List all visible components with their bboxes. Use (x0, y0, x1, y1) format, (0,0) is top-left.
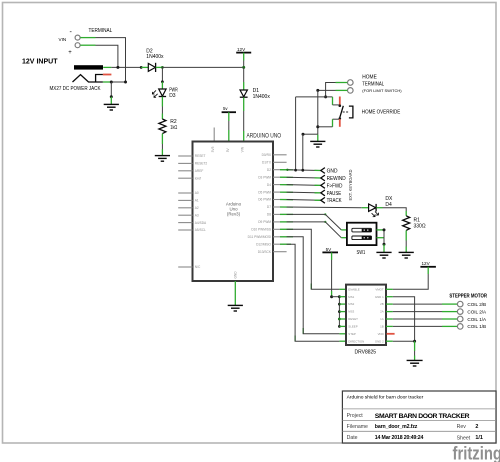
wire D10 to DRV ENABLE (287, 229, 340, 289)
svg-text:GND 2: GND 2 (375, 339, 384, 343)
SW1 slot 1 (352, 228, 372, 232)
power jack spring stub (103, 81, 111, 83)
diode D2 anode dot (140, 66, 143, 69)
svg-text:Arduino shield for barn door t: Arduino shield for barn door tracker (347, 395, 424, 401)
svg-text:Project: Project (347, 413, 364, 419)
wire D3 to REWIND (287, 176, 321, 179)
wire keyboard gnd riser join (303, 133, 318, 135)
svg-text:VMOT: VMOT (375, 287, 384, 291)
DRV left pin labels (348, 287, 364, 343)
wire D7 to LED D4 (287, 206, 362, 209)
svg-text:ARDUINO UNO: ARDUINO UNO (247, 132, 282, 139)
wire GND1 to ground (393, 297, 415, 342)
LED D3 light arrows (152, 90, 157, 97)
junction dot above ground (110, 95, 113, 98)
svg-text:D5 PWM: D5 PWM (258, 190, 271, 194)
svg-text:D1/TX: D1/TX (262, 161, 272, 165)
SW1 slot 2 (352, 236, 372, 240)
wire D4 to F-FWD (287, 184, 321, 187)
power jack J2 barrel bar (74, 65, 103, 69)
svg-text:RESET2: RESET2 (195, 162, 208, 166)
svg-text:COIL 1/B: COIL 1/B (467, 324, 486, 329)
svg-text:D13/SCK: D13/SCK (258, 250, 272, 254)
svg-text:D7: D7 (267, 205, 271, 209)
wire D5 to PAUSE (287, 191, 321, 194)
arduino right pin labels (248, 153, 272, 254)
svg-text:D3: D3 (169, 93, 176, 99)
svg-text:12V: 12V (237, 47, 246, 52)
wire 5v to arduino (228, 121, 230, 130)
wire terminal pin2 to ground line (318, 89, 336, 91)
svg-text:A4/SDA: A4/SDA (195, 221, 207, 225)
keyboard connector arrows (321, 168, 325, 204)
junction dot 5V node (330, 295, 333, 298)
ground symbol home (310, 141, 325, 147)
svg-text:COIL 2/A: COIL 2/A (467, 309, 487, 314)
switch S1 actuator dashes (343, 111, 350, 113)
wire terminal pin2 to 12V node (96, 45, 118, 67)
wire GND2 join (393, 340, 415, 342)
bendpoint dots D8/D9 wires (324, 213, 326, 215)
wire 12V to VMOT (393, 274, 428, 289)
SW1 right stubs (377, 229, 385, 231)
ground symbol R2 (155, 156, 170, 162)
svg-text:TRACK: TRACK (327, 198, 343, 204)
diode D2 triangle (148, 63, 155, 71)
LED D3 cathode bar (159, 96, 166, 98)
resistor R2 zigzag (159, 119, 166, 134)
svg-text:(Rev3): (Rev3) (227, 212, 241, 217)
svg-text:A0: A0 (195, 191, 199, 195)
switch S1 bottom contact red (339, 119, 341, 127)
wire switch-top net horizontal (296, 96, 333, 98)
arduino left pin labels (195, 154, 208, 269)
svg-text:D4: D4 (385, 202, 392, 208)
arduino right pin green ends D2-D12 (280, 170, 311, 342)
arduino 5V pin green end (228, 130, 230, 142)
wire spring node to terminal-minus drop (111, 81, 125, 83)
resistor R2 bottom stub (161, 134, 163, 144)
power 5v bar (222, 111, 236, 113)
home terminal pin2 stub (336, 89, 348, 91)
svg-text:GND: GND (233, 271, 237, 279)
wire terminal pin1 to node (326, 83, 336, 97)
LED D3 triangle (159, 89, 166, 96)
power 5V stub (331, 252, 333, 260)
svg-text:HOME OVERRIDE: HOME OVERRIDE (362, 110, 401, 116)
LED D4 light arrows (372, 212, 379, 217)
wire D2 to keyboard GND (287, 169, 321, 172)
wire rail branch down to LED D3 (161, 67, 163, 81)
DRV right pin stubs (386, 289, 393, 341)
power jack spring contact (73, 75, 103, 82)
wire D11 to DRV STEP (287, 237, 340, 334)
svg-text:VDD: VDD (378, 332, 384, 336)
junction dot (324, 95, 327, 98)
svg-text:1N400x: 1N400x (146, 54, 164, 60)
wire 2A to coil (393, 311, 442, 313)
svg-text:D11 PWM/MOSI: D11 PWM/MOSI (248, 235, 271, 239)
svg-text:D12/MISO: D12/MISO (256, 242, 271, 246)
svg-text:A2: A2 (195, 206, 199, 210)
switch S1 top contact red (339, 97, 341, 106)
junction dot spring node (110, 81, 113, 84)
wire 1A to coil (393, 318, 442, 320)
svg-text:SMART BARN DOOR TRACKER: SMART BARN DOOR TRACKER (375, 413, 470, 420)
junction dot 12V node (242, 66, 245, 69)
svg-text:A5/SCL: A5/SCL (195, 228, 206, 232)
wire terminal pin1 to jack spring (96, 38, 126, 82)
junction dot LED top (161, 80, 164, 83)
svg-text:Rev: Rev (457, 424, 467, 430)
LED D4 cathode bar (375, 204, 377, 212)
svg-text:Date: Date (347, 435, 358, 441)
svg-text:SLEEP: SLEEP (348, 325, 357, 329)
junction dot D2 out (161, 66, 164, 69)
svg-text:MS1: MS1 (348, 295, 354, 299)
wire MS1 row from 5V node (332, 296, 340, 298)
ground stub home (317, 135, 319, 141)
svg-text:D3 PWM: D3 PWM (258, 175, 271, 179)
wire 12V bar to node (243, 61, 245, 68)
op module U1 arduino uno box (193, 142, 274, 282)
svg-text:2: 2 (475, 424, 478, 430)
switch S1 top contact dot (339, 104, 342, 107)
svg-text:COIL 2/B: COIL 2/B (467, 302, 486, 307)
svg-text:RESET: RESET (348, 317, 358, 321)
keyboard pin labels (327, 169, 346, 205)
LED D4 triangle (369, 204, 376, 211)
svg-text:GND 1: GND 1 (375, 295, 384, 299)
switch S1 bottom feed (333, 118, 339, 120)
wire R2 to ground (161, 144, 163, 149)
terminal J1 pin2 stub (80, 44, 95, 46)
svg-text:D10 PWM/SS: D10 PWM/SS (251, 228, 271, 232)
SW1 ground bus (383, 230, 385, 244)
wire D6 to TRACK (287, 199, 321, 202)
diode D2 anode stub (141, 66, 148, 68)
svg-text:STEPPER MOTOR: STEPPER MOTOR (449, 293, 487, 299)
ground stub R2 (161, 149, 163, 155)
arduino right pin stubs (273, 155, 287, 252)
junction dot (302, 133, 305, 136)
home terminal J3 circles (348, 80, 354, 86)
terminal J1 pin 2 circle (75, 43, 80, 48)
svg-text:EXT. KEYBOARD: EXT. KEYBOARD (348, 169, 353, 201)
svg-text:Filename: Filename (347, 424, 368, 430)
stepper motor pin circles (457, 301, 463, 307)
stepper coil labels (467, 302, 487, 329)
svg-text:D9 PWM: D9 PWM (258, 220, 271, 224)
svg-text:TERMINAL: TERMINAL (362, 82, 384, 88)
power jack detect pin lead (96, 75, 103, 83)
svg-text:SW1: SW1 (357, 250, 366, 256)
svg-text:MS3: MS3 (348, 310, 354, 314)
wire 5V to MS1 row (331, 260, 333, 291)
svg-text:12V INPUT: 12V INPUT (22, 57, 58, 66)
switch S1 lever (340, 106, 344, 118)
svg-text:14 Mar 2018 20:49:24: 14 Mar 2018 20:49:24 (375, 435, 424, 441)
LED D3 cathode stub (161, 97, 163, 107)
junction dots keyboard gnd row (286, 169, 288, 171)
svg-text:ENABLE: ENABLE (348, 287, 359, 291)
wire spring node down to ground (110, 82, 112, 97)
switch S1 top feed (332, 97, 334, 105)
SW1 pin2 stub (341, 237, 347, 239)
DRV left tie bus MS1-SLEEP (338, 297, 340, 327)
arduino left pin stubs (178, 156, 192, 267)
diode D1 cathode stub (243, 97, 245, 111)
svg-text:N/C: N/C (195, 265, 201, 269)
junction dot (316, 89, 319, 92)
DRV left pin stubs green (339, 289, 346, 341)
junction dot gnd (413, 340, 416, 343)
wire R1 to ground (405, 241, 407, 247)
junction dot terminal-minus corner (124, 81, 127, 84)
switch SW1 body (347, 223, 377, 245)
svg-text:ioref: ioref (195, 176, 201, 180)
power 5v stub (228, 112, 230, 121)
switch S1 bottom contact dot (339, 117, 342, 120)
svg-text:F>FWD: F>FWD (327, 183, 343, 189)
ground stub jack (110, 97, 112, 104)
terminal J1 pin 1 circle (75, 35, 80, 40)
svg-text:12V: 12V (422, 261, 431, 266)
svg-text:VIN: VIN (241, 146, 245, 152)
svg-text:330Ω: 330Ω (414, 224, 426, 230)
wire D12 to DRV DIRECTION (287, 244, 340, 341)
wire ground net vertical (317, 90, 319, 134)
ground symbol jack (104, 104, 119, 110)
svg-text:PAUSE: PAUSE (327, 191, 342, 197)
svg-text:D6 PWM: D6 PWM (258, 198, 271, 202)
diode D1 triangle (240, 90, 247, 97)
svg-text:DIRECTION: DIRECTION (348, 339, 364, 343)
power 12V stub down (243, 53, 245, 61)
ground symbol DRV (407, 360, 423, 366)
svg-text:HOME: HOME (362, 74, 377, 80)
svg-text:3V3: 3V3 (211, 146, 215, 152)
svg-text:barn_door_m2.fzz: barn_door_m2.fzz (375, 424, 418, 430)
svg-text:1B: 1B (380, 325, 384, 329)
keyboard riser ground net (302, 134, 304, 170)
wire 2B to coil (393, 303, 442, 305)
svg-text:1/1: 1/1 (475, 435, 483, 441)
power symbol 12V bar (236, 52, 251, 54)
tie bus junction dots (338, 295, 341, 298)
arduino GND pin stub down (234, 281, 236, 305)
wire D8 to SW1 pin1 (287, 214, 342, 230)
svg-text:DRV8825: DRV8825 (355, 349, 377, 355)
svg-text:Sheet: Sheet (457, 436, 471, 442)
power jack detect pin red stub (103, 74, 112, 76)
IC U2 DRV8825 box (346, 285, 386, 345)
power 12V bar (420, 266, 436, 268)
power 5V bar (322, 251, 338, 253)
svg-text:(FOR LIMIT SWITCH): (FOR LIMIT SWITCH) (362, 89, 402, 93)
resistor R1 zigzag (403, 216, 410, 231)
arduino 3V3 pin stub (213, 128, 215, 142)
svg-text:TERMINAL: TERMINAL (89, 28, 113, 34)
resistor R1 bottom stub (405, 230, 407, 240)
ground symbol R1 (399, 252, 414, 258)
svg-text:GND: GND (327, 169, 338, 175)
svg-text:MX27 DC POWER JACK: MX27 DC POWER JACK (50, 86, 102, 92)
power 12V stub (427, 267, 429, 274)
resistor R1 top stub (405, 211, 407, 216)
wire LED D3 to R2 (161, 107, 163, 114)
ground stub R1 (405, 247, 407, 253)
diode D2 cathode stub (156, 66, 163, 68)
svg-text:D4: D4 (267, 183, 271, 187)
wire 1B to coil (393, 325, 442, 327)
wire 12V rail to VIN drop (162, 66, 243, 68)
wire jack pin1 to node (111, 66, 141, 68)
svg-text:VIN: VIN (59, 37, 67, 42)
LED D4 cathode stub (376, 207, 382, 209)
svg-text:RESET: RESET (195, 154, 206, 158)
svg-text:D2: D2 (267, 168, 271, 172)
ground stub SW1 (383, 244, 385, 252)
LED D4 anode stub (362, 207, 369, 209)
terminal J1 pin1 stub (80, 37, 95, 39)
svg-text:D8: D8 (267, 213, 271, 217)
wire LED D4 to R1 (383, 208, 407, 211)
svg-text:1N400x: 1N400x (253, 94, 271, 100)
svg-text:1A: 1A (380, 317, 384, 321)
junction dot jack 12V node (116, 66, 119, 69)
DRV VDD pin red stub (387, 333, 395, 335)
power jack pin1 stub (103, 66, 111, 68)
ground symbol SW1 (376, 252, 391, 258)
stepper motor pin stubs (442, 304, 457, 326)
keyboard riser D2 net (295, 97, 297, 170)
junction dot lower contact (316, 125, 319, 128)
DRV right pin labels (375, 287, 384, 343)
svg-text:1kΩ: 1kΩ (170, 125, 177, 131)
ground symbol arduino (228, 305, 243, 311)
LED D3 anode stub (161, 82, 163, 89)
wire D1 to VIN pin (243, 111, 245, 131)
svg-text:+: + (68, 50, 72, 56)
keyboard pin stubs green (315, 170, 321, 200)
svg-text:MS2: MS2 (348, 302, 354, 306)
SW1 pin1 stub (341, 229, 347, 231)
title block row lines (342, 409, 496, 431)
svg-text:D0/RX: D0/RX (262, 153, 272, 157)
wire D9 to SW1 pin2 (287, 222, 342, 238)
svg-text:fritzing: fritzing (453, 443, 500, 462)
switch S1 actuator bracket (349, 106, 353, 118)
svg-text:A3: A3 (195, 213, 199, 217)
resistor R2 top stub (161, 114, 163, 120)
svg-text:AREF: AREF (195, 169, 204, 173)
VIN pin green end (243, 131, 245, 142)
diode D1 cathode bar (240, 96, 248, 98)
home terminal pin1 stub (336, 82, 348, 84)
diode D2 cathode bar (155, 63, 157, 72)
svg-text:A1: A1 (195, 199, 199, 203)
diode D1 anode stub (243, 82, 245, 90)
ground link (414, 341, 416, 351)
svg-text:REWIND: REWIND (327, 176, 346, 182)
svg-text:5V: 5V (326, 247, 333, 252)
svg-text:COIL 1/A: COIL 1/A (467, 317, 487, 322)
title block frame (342, 391, 496, 443)
svg-text:2A: 2A (380, 310, 384, 314)
svg-text:2B: 2B (380, 302, 384, 306)
wire 12V node down to D1 (243, 67, 245, 82)
svg-text:STEP: STEP (348, 332, 356, 336)
